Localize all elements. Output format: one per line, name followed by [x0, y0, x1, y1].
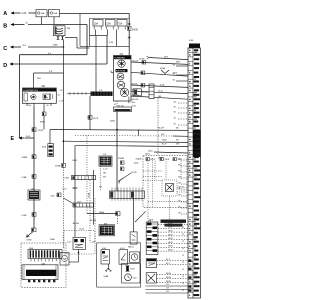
svg-text:BL-R: BL-R — [73, 160, 78, 162]
svg-text:SB: SB — [176, 139, 179, 141]
svg-text:6O8: 6O8 — [42, 147, 47, 149]
fuse bar symbol 2647 — [126, 266, 129, 271]
wire E — [25, 137, 34, 139]
wire into switch top — [33, 73, 35, 88]
wire y145.3 to strip — [76, 145, 189, 146]
svg-text:INSTRUM: INSTRUM — [116, 71, 125, 73]
multi-pin connector strip 5/M — [28, 250, 62, 259]
dashed drop to relay enclosure — [157, 98, 159, 155]
svg-text:C/8H: C/8H — [22, 215, 27, 217]
switch box diagonal — [146, 273, 156, 283]
svg-text:GN-R: GN-R — [168, 231, 173, 233]
wire from connector right — [65, 37, 77, 39]
wires entering strip solid — [176, 65, 188, 67]
enclosure bottom center — [97, 243, 141, 287]
wire A bus to right — [60, 13, 130, 15]
wire drop x93.5 — [93, 170, 95, 225]
wire right y48 — [77, 47, 90, 49]
wire drop x138.5 — [138, 130, 140, 136]
svg-text:BL-GN: BL-GN — [73, 223, 80, 225]
wire fuse2 down — [107, 30, 109, 36]
svg-text:4-30: 4-30 — [109, 42, 114, 44]
wire corner down x77 — [76, 38, 78, 49]
svg-text:12: 12 — [182, 255, 184, 257]
svg-text:24MB: 24MB — [22, 157, 28, 159]
wire B down at x87 — [86, 25, 88, 55]
wire fuse3 down to y46.3 — [116, 30, 118, 47]
caption block — [161, 220, 187, 223]
svg-text:GM3-1: GM3-1 — [128, 246, 135, 248]
svg-text:GN-R: GN-R — [168, 242, 173, 244]
instrument black bar — [116, 69, 128, 72]
svg-text:12: 12 — [182, 269, 184, 271]
svg-text:W-R: W-R — [164, 57, 169, 59]
svg-text:24A8: 24A8 — [99, 211, 105, 214]
entry connector squares on strip — [188, 260, 191, 262]
wire bar down to connector — [89, 96, 91, 130]
svg-text:BL: BL — [174, 118, 176, 120]
svg-text:12: 12 — [182, 290, 184, 292]
dashed wires switch to strip — [157, 274, 188, 276]
svg-text:BL: BL — [173, 65, 175, 67]
svg-text:GN-R: GN-R — [168, 227, 173, 229]
wire to heater bar x96 — [95, 36, 97, 92]
switch box small — [130, 232, 137, 244]
bulkhead connector row — [110, 191, 145, 198]
svg-text:9-4: 9-4 — [23, 45, 27, 47]
dashed drop x87 — [86, 136, 88, 214]
svg-text:22A1B: 22A1B — [118, 157, 125, 160]
svg-text:12: 12 — [182, 227, 184, 229]
gauge temp — [117, 73, 124, 80]
fusebox divider — [89, 19, 91, 47]
wire horizontal to sq connector — [87, 213, 117, 215]
svg-text:BK/YE: BK/YE — [119, 177, 125, 182]
clock symbol O60 — [125, 274, 132, 281]
svg-text:GN-R: GN-R — [162, 139, 167, 141]
svg-text:GN-R: GN-R — [168, 223, 173, 225]
wire D — [17, 63, 107, 65]
wires entering strip lower — [181, 159, 188, 161]
wire row down x133.5 — [133, 198, 135, 232]
wire from relay down with Y splice — [107, 264, 109, 270]
svg-text:31-B: 31-B — [132, 105, 137, 107]
svg-text:12: 12 — [182, 248, 184, 250]
wires entering strip mid dashed — [178, 102, 188, 104]
fuse 15A (panel) — [106, 20, 116, 27]
wire drop x63 lower — [62, 73, 64, 164]
svg-text:24DC: 24DC — [134, 163, 140, 165]
svg-text:1-1O: 1-1O — [103, 169, 108, 171]
gauge clock — [120, 88, 128, 96]
extra enclosure dashes — [152, 158, 154, 207]
svg-text:2647: 2647 — [130, 269, 135, 271]
svg-text:BL: BL — [174, 107, 176, 109]
svg-text:24/2: 24/2 — [51, 196, 56, 198]
dashed box around relay — [64, 231, 95, 255]
terminal strip dense text rows — [194, 49, 198, 51]
wire fuse1 drop to B bus — [41, 17, 43, 25]
connector 24O8 on left wire — [32, 128, 36, 132]
solenoid MY37 with dotted frame — [162, 180, 177, 196]
svg-text:56a: 56a — [28, 105, 31, 107]
svg-text:4/5c: 4/5c — [132, 102, 136, 104]
svg-text:GN: GN — [176, 144, 179, 146]
terminal strip pin marks — [189, 50, 191, 51]
svg-text:BL: BL — [174, 124, 176, 126]
wire motor to resistor pack — [128, 97, 130, 104]
svg-text:4-JB: 4-JB — [160, 85, 165, 87]
svg-text:GN: GN — [99, 186, 103, 188]
svg-text:SB: SB — [178, 195, 181, 197]
module pins — [28, 280, 30, 283]
svg-text:24A8: 24A8 — [50, 238, 56, 241]
svg-text:24/2B: 24/2B — [142, 91, 148, 93]
svg-text:24A8: 24A8 — [104, 275, 110, 278]
pins below connector — [30, 259, 32, 262]
fuse pin hooks — [93, 27, 96, 30]
svg-text:A: A — [3, 11, 7, 17]
wire B down left vertical — [19, 55, 21, 138]
svg-text:GR: GR — [161, 134, 164, 136]
svg-text:1-42: 1-42 — [22, 13, 27, 15]
svg-text:BL-R: BL-R — [73, 188, 78, 190]
svg-text:E: E — [11, 136, 15, 142]
svg-text:BL: BL — [173, 74, 175, 76]
wire y46.3 horizontal — [80, 45, 129, 47]
wire C — [28, 46, 64, 48]
dashed enclosure assembly — [143, 155, 187, 207]
svg-text:SB: SB — [178, 207, 181, 209]
svg-text:24DC: 24DC — [148, 150, 153, 152]
dashed drop from grid module — [100, 166, 102, 191]
svg-text:SB-W: SB-W — [166, 277, 171, 279]
main left vertical harness wire — [33, 106, 35, 229]
svg-text:BL-R: BL-R — [162, 144, 167, 146]
svg-text:GN-R: GN-R — [168, 246, 173, 248]
relay RE box — [146, 258, 156, 267]
svg-text:43/88: 43/88 — [160, 68, 166, 70]
wire mid with Y splice — [131, 72, 188, 76]
svg-text:LIGHTSWITCH: LIGHTSWITCH — [24, 90, 39, 92]
connector halves below coil — [57, 36, 59, 40]
blower box right of cluster — [133, 89, 141, 96]
svg-text:12: 12 — [182, 283, 184, 285]
svg-text:C/8A: C/8A — [22, 176, 27, 179]
svg-text:SB: SB — [178, 213, 181, 215]
ignition coil X1 (loops) — [54, 26, 66, 36]
dashed feeds to bottom — [89, 180, 91, 243]
wire y141.2 to strip — [63, 141, 188, 142]
wire fuse1 down-left — [95, 30, 97, 36]
wire ticks left of bar — [67, 93, 91, 95]
svg-text:24O8: 24O8 — [38, 130, 44, 132]
svg-text:D: D — [3, 63, 7, 69]
svg-text:BL-R: BL-R — [87, 193, 89, 198]
svg-text:50: 50 — [58, 95, 61, 97]
svg-text:12: 12 — [182, 262, 184, 264]
svg-text:GN-R: GN-R — [168, 234, 173, 236]
wire y35.5 — [96, 35, 107, 37]
svg-text:4/56: 4/56 — [189, 40, 194, 42]
dashed wire mid horizontal — [75, 135, 173, 138]
svg-text:10A: 10A — [41, 12, 45, 15]
diagonal into second pill — [63, 198, 73, 204]
wire drop x75 BL-R — [74, 145, 76, 237]
connector 24/3C inline — [128, 14, 130, 27]
svg-text:BL: BL — [174, 112, 176, 114]
svg-text:1-2x: 1-2x — [67, 242, 72, 244]
svg-text:SB: SB — [176, 128, 179, 130]
fusebox left edge — [79, 14, 81, 47]
svg-text:BL: BL — [173, 80, 175, 82]
svg-text:9-31: 9-31 — [26, 136, 31, 138]
svg-text:GN: GN — [158, 96, 162, 98]
svg-text:GN-R: GN-R — [168, 238, 173, 240]
svg-text:SB: SB — [103, 177, 106, 179]
svg-text:24-B: 24-B — [158, 91, 163, 93]
svg-text:O60: O60 — [133, 278, 138, 280]
svg-text:12: 12 — [182, 276, 184, 278]
cluster left pin wire — [111, 71, 114, 73]
wire B bus — [28, 24, 87, 26]
svg-text:15A: 15A — [53, 12, 57, 15]
svg-text:22A1B: 22A1B — [136, 158, 143, 161]
fuse 10A — [36, 10, 47, 17]
sub-box clock assembly — [122, 264, 141, 284]
svg-text:SB: SB — [178, 183, 181, 185]
svg-text:24A/1: 24A/1 — [110, 119, 116, 122]
wire A to fuses — [29, 12, 37, 14]
svg-text:SB-W: SB-W — [166, 281, 171, 283]
svg-text:12: 12 — [182, 234, 184, 236]
svg-text:GN: GN — [103, 173, 107, 175]
svg-text:58: 58 — [47, 105, 49, 107]
end connector and arrow — [32, 228, 37, 232]
lamp module with bar — [22, 265, 58, 280]
svg-text:24/8A: 24/8A — [55, 165, 61, 168]
svg-text:SB-W: SB-W — [166, 273, 171, 275]
dashed enclosure bottom left — [21, 243, 66, 288]
svg-text:24 D/F: 24 D/F — [158, 128, 165, 130]
wiper motor M — [60, 253, 69, 265]
gauge speedo — [117, 81, 125, 89]
svg-text:24DC: 24DC — [145, 153, 151, 155]
svg-text:7-8: 7-8 — [60, 90, 64, 92]
clock module O60 — [130, 252, 140, 262]
switch pins — [26, 103, 28, 106]
svg-text:BL-GR: BL-GR — [90, 220, 97, 222]
terminal strip body — [188, 48, 201, 298]
svg-text:12: 12 — [182, 241, 184, 243]
gauge fuel — [118, 60, 125, 67]
wire left y73 — [34, 72, 64, 74]
junction C to switch drop — [63, 46, 65, 48]
svg-text:BL: BL — [174, 102, 176, 104]
fuse 10A (panel) — [93, 20, 103, 27]
wire W-R to strip upper — [147, 56, 150, 59]
fuse 15A — [49, 10, 60, 17]
resistor 6O8 branch — [49, 130, 51, 144]
svg-text:24O8: 24O8 — [164, 159, 169, 161]
diagonal wire — [135, 211, 146, 222]
svg-text:24O8: 24O8 — [93, 118, 99, 120]
wire drop x63.5 to switch — [63, 40, 65, 73]
svg-text:M: M — [63, 257, 65, 261]
svg-text:7/8: 7/8 — [103, 154, 107, 156]
svg-text:COMBINED: COMBINED — [114, 58, 125, 60]
svg-text:24B: 24B — [37, 78, 41, 80]
svg-text:24O8: 24O8 — [158, 157, 163, 159]
cluster down vertical x117 — [116, 112, 118, 192]
svg-text:7.5A: 7.5A — [117, 22, 122, 25]
solid bottom wires — [146, 285, 189, 287]
svg-text:24B: 24B — [67, 28, 71, 30]
wire relay down to motor — [78, 249, 80, 262]
svg-text:224 B: 224 B — [131, 172, 137, 174]
svg-text:GN-OR: GN-OR — [132, 99, 139, 101]
svg-text:B: B — [3, 24, 7, 30]
dashed wires bank to strip — [158, 224, 188, 226]
wire between fuses — [47, 12, 49, 14]
svg-text:10A: 10A — [94, 22, 99, 25]
svg-text:15A: 15A — [106, 22, 111, 25]
svg-text:SB: SB — [178, 201, 181, 203]
wire D up x107 — [106, 36, 108, 65]
svg-text:24/3C: 24/3C — [132, 29, 138, 31]
svg-text:1-1O: 1-1O — [62, 189, 67, 191]
connectors along enclosure top — [146, 158, 149, 161]
svg-text:1/3M: 1/3M — [53, 44, 58, 46]
svg-text:24/8: 24/8 — [65, 178, 70, 180]
svg-text:GN-R: GN-R — [168, 250, 173, 252]
wire B left at y54.7 — [20, 54, 88, 56]
wire fuse2 drop to B bus — [53, 17, 55, 25]
fuse 7.5A (panel) — [117, 20, 127, 27]
svg-text:BL-R: BL-R — [79, 228, 84, 230]
terminal strip black blob — [193, 130, 201, 157]
dashed stub cluster to pack — [116, 101, 118, 107]
svg-text:C: C — [3, 46, 7, 52]
wire main mid horizontal — [50, 129, 188, 132]
svg-text:8/1M: 8/1M — [27, 240, 32, 242]
wires inside enclosure — [147, 161, 149, 207]
wire y152 to strip — [154, 152, 188, 153]
svg-text:SB: SB — [178, 189, 181, 191]
svg-text:W-R: W-R — [176, 61, 181, 63]
connector stack 4-cell — [149, 84, 154, 99]
terminal strip cells — [188, 47, 193, 49]
dashed drops below enclosure — [147, 207, 149, 219]
wire pin down to connector — [43, 106, 45, 112]
dashed wires relay to strip — [157, 260, 188, 262]
